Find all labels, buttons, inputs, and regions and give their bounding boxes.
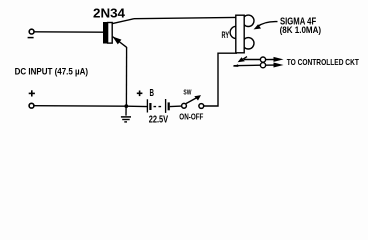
relay contact row 2 (fixed)	[233, 63, 284, 68]
wire: collector to relay coil	[134, 17, 236, 18]
svg-text:ON-OFF: ON-OFF	[179, 112, 203, 122]
wire: battery to switch	[170, 105, 182, 108]
switch SW	[182, 95, 204, 108]
label ON-OFF	[179, 112, 203, 122]
svg-text:DC INPUT (47.5 µA): DC INPUT (47.5 µA)	[15, 66, 89, 77]
pointer arrow to relay	[254, 22, 278, 30]
relay RY coil	[230, 15, 254, 53]
svg-text:(8K 1.0MA): (8K 1.0MA)	[280, 24, 322, 35]
relay contact row 1 (armature)	[238, 57, 284, 63]
svg-text:B: B	[150, 87, 155, 99]
label TO CONTROLLED CKT	[287, 57, 360, 67]
svg-text:TO CONTROLLED CKT: TO CONTROLLED CKT	[287, 57, 360, 67]
wire: input to base	[34, 31, 103, 33]
wire: emitter drop	[125, 47, 127, 106]
label battery + B	[137, 87, 154, 99]
terminal: DC input positive	[29, 90, 35, 108]
ground	[121, 106, 131, 122]
svg-text:22.5V: 22.5V	[149, 115, 168, 126]
label DC INPUT (47.5 uA)	[15, 66, 89, 77]
label SW	[183, 88, 192, 97]
battery B	[147, 99, 169, 113]
label (8K 1.0MA)	[280, 24, 322, 35]
label RY	[222, 30, 230, 40]
svg-text:RY: RY	[222, 30, 230, 40]
label 22.5V	[149, 115, 168, 126]
terminal: DC input negative	[28, 29, 34, 37]
junction node	[124, 104, 128, 108]
svg-text:SW: SW	[183, 88, 192, 97]
label 2N34	[93, 5, 126, 20]
svg-text:2N34: 2N34	[93, 5, 126, 20]
wire: bottom rail left	[34, 105, 147, 108]
label SIGMA 4F	[280, 16, 316, 27]
transistor Q1 2N34	[103, 19, 134, 48]
wire: relay bottom to switch riser	[204, 53, 237, 106]
